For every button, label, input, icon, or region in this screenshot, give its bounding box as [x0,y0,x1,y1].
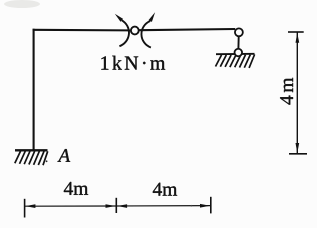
scan speck on bottom dimension [191,205,193,207]
label: 4m (bottom right) [153,183,177,196]
dimension arrow: middle pointing left [117,204,127,208]
dimension: right vertical line [296,32,298,154]
moment arc left (counterclockwise arrow) [115,14,129,47]
dimension arrow: middle pointing right [106,204,116,208]
dimension: bottom span lines [25,205,211,208]
fixed support A: ground line [15,149,48,151]
dimension arrow: right end pointing right [200,204,210,208]
moment arc right (clockwise arrow) [141,12,155,47]
dimension: right tick [210,197,212,214]
label: 4m (right, rotated) [280,78,293,105]
wire: left column [33,29,35,150]
wire: beam right segment [139,29,235,30]
dimension: middle tick [115,198,117,213]
dimension: right top tick [288,31,304,33]
label: node A [57,149,70,162]
dimension: right bottom tick [289,153,307,155]
dimension arrow: left end pointing left [25,204,35,208]
dimension arrow: down [296,143,300,153]
scan speck at support A [46,160,48,162]
dimension: left tick [24,199,26,218]
label: 1kN·m [101,56,165,70]
roller support: hatching [216,54,255,68]
label: 4m (bottom left) [64,182,88,195]
roller support: ground line [216,53,255,55]
hinge B (circle) [131,27,139,35]
roller support: lower circle [235,49,243,57]
dimension arrow: up [296,33,300,43]
wire: beam left segment [33,29,131,32]
roller support: upper hinge circle [235,28,243,36]
scan smudge top-left [4,0,40,8]
fixed support A: hatching [15,151,48,165]
roller support: link bar [237,37,239,49]
